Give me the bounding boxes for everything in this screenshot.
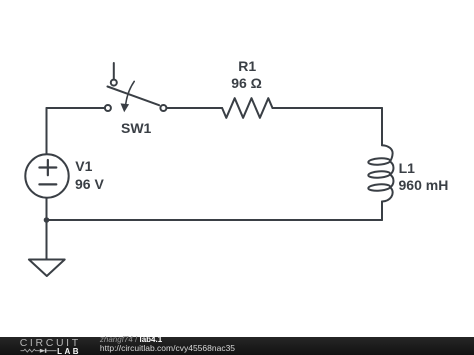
wire V1 bottom to junction	[46, 198, 48, 220]
label 96 V	[75, 177, 104, 191]
terminal right	[160, 105, 166, 111]
motion arrow	[126, 81, 135, 104]
footer bar	[0, 337, 474, 355]
wire top-left horizontal (V1 top to SW1 left terminal)	[47, 107, 105, 109]
wire right vertical (corner down to L1)	[381, 108, 383, 145]
label V1	[75, 159, 92, 173]
label 96 Ω	[231, 76, 262, 90]
wire SW1 right to resistor R1	[167, 107, 222, 109]
logo doodle wire+resistor+diode	[21, 349, 40, 352]
label L1	[399, 161, 415, 175]
node junction (V1- / L1- / GND)	[44, 217, 50, 223]
resistor R1	[222, 98, 272, 118]
label R1	[238, 59, 256, 73]
terminal left	[105, 105, 111, 111]
wire junction down to ground	[46, 220, 48, 260]
inductor L1	[368, 145, 393, 201]
switch SW1	[105, 63, 166, 112]
wire stub above top throw	[113, 63, 115, 79]
url line	[100, 344, 235, 353]
plus sign	[39, 160, 56, 175]
blade	[108, 87, 160, 106]
minus sign	[39, 183, 56, 185]
voltage source V1	[25, 154, 68, 197]
wire bottom horizontal	[47, 219, 383, 221]
ground	[29, 260, 65, 277]
wire resistor to top-right corner	[273, 107, 383, 109]
CircuitLab logo	[20, 338, 81, 349]
label SW1	[121, 121, 151, 135]
label 960 mH	[399, 178, 449, 192]
terminal top	[111, 80, 117, 86]
wire L1 bottom to corner	[381, 202, 383, 221]
credit line	[100, 336, 162, 344]
wire left vertical (top corner down to V1)	[46, 108, 48, 154]
